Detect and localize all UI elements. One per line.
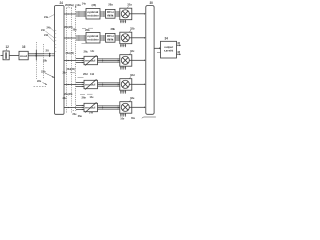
svg-text:modul: modul — [85, 107, 96, 110]
dashed guide left 2 — [36, 61, 38, 80]
wires into modulator b — [76, 36, 86, 40]
svg-text:24d: 24d — [44, 33, 49, 37]
wire splitter to row b — [64, 37, 76, 39]
wires into modulator c — [76, 59, 84, 63]
wire mixer e to combiner — [132, 106, 145, 108]
dashed guide left — [42, 44, 44, 79]
svg-text:34: 34 — [165, 37, 169, 41]
stub lower — [157, 52, 161, 54]
wire mixer a to combiner — [132, 13, 145, 15]
wire mixer d to combiner — [132, 83, 145, 85]
dashed top edge — [66, 7, 72, 9]
mixer circle d — [121, 80, 129, 88]
svg-text:12: 12 — [6, 45, 10, 49]
svg-text:38: 38 — [177, 50, 180, 54]
LO stubs d — [121, 90, 125, 93]
wires mod to filter b — [100, 36, 106, 40]
svg-text:14e: 14e — [89, 111, 94, 115]
slashed modulator box e — [84, 103, 98, 111]
svg-text:20: 20 — [46, 49, 50, 53]
svg-text:24c: 24c — [41, 28, 46, 32]
svg-text:modul: modul — [85, 84, 96, 87]
mixer circle a — [121, 10, 129, 18]
arrowhead top of line — [75, 5, 77, 7]
svg-text:24a: 24a — [44, 15, 49, 19]
mixer circle c — [121, 56, 129, 64]
svg-text:28d: 28d — [63, 72, 68, 75]
svg-text:32a: 32a — [127, 3, 132, 7]
wire splitter to row c — [64, 60, 76, 62]
slashed modulator box c — [84, 56, 98, 64]
svg-text:20e: 20e — [72, 112, 77, 116]
long wires to mixer c — [98, 59, 120, 62]
mixer box b — [120, 32, 132, 44]
wire splitter to row d — [64, 84, 76, 86]
dashed box 2 right edge — [75, 5, 77, 111]
slashed modulator box d — [84, 80, 98, 88]
svg-text:(26): (26) — [92, 3, 97, 7]
dashed box 2 left edge — [66, 8, 68, 113]
LO stubs e — [121, 113, 125, 116]
splitter internal ticks — [55, 30, 57, 51]
svg-text:28b: 28b — [111, 27, 116, 31]
svg-text:26d: 26d — [83, 72, 88, 76]
mixer box e — [120, 102, 132, 114]
wires into modulator e — [76, 106, 84, 110]
svg-text:26(26a): 26(26a) — [65, 3, 74, 7]
mixer circle e — [121, 103, 129, 111]
svg-text:filt: filt — [107, 39, 114, 42]
LO stubs b — [121, 44, 125, 47]
svg-text:mod: mod — [20, 55, 28, 58]
leader for 12 — [5, 49, 8, 51]
svg-text:18b: 18b — [43, 59, 48, 63]
svg-text:28b: 28b — [73, 29, 78, 32]
wires filter to mixer b — [115, 36, 120, 40]
svg-text:26e: 26e — [82, 95, 87, 99]
combiner bottom hook — [142, 117, 156, 118]
svg-text:16: 16 — [22, 45, 26, 49]
mixer box d — [120, 79, 132, 91]
modulator box b — [86, 33, 100, 44]
wire arrows into splitter — [44, 54, 49, 56]
input wire from edge — [1, 55, 4, 57]
wires mod to filter a — [100, 12, 106, 16]
svg-text:22e: 22e — [37, 79, 42, 83]
symbol inside L1 — [5, 52, 7, 58]
dashed box 2 mid edge — [71, 8, 73, 113]
wire splitter to row a — [64, 13, 76, 15]
filter box b — [106, 33, 116, 42]
svg-text:16e: 16e — [120, 118, 125, 120]
long wires to mixer e — [98, 106, 120, 109]
svg-text:24: 24 — [60, 1, 64, 5]
svg-text:14d: 14d — [90, 73, 95, 76]
svg-text:12a: 12a — [76, 3, 81, 7]
combiner box — [146, 6, 154, 115]
wire mixer c to combiner — [132, 59, 145, 61]
splitter box — [55, 6, 64, 115]
junction bar — [35, 50, 37, 60]
svg-text:26c: 26c — [84, 50, 89, 54]
svg-text:14e: 14e — [90, 96, 95, 99]
dashed horizontal bottom left — [34, 86, 47, 88]
wire L1 to L2 — [9, 55, 19, 57]
box source L1 — [3, 51, 9, 60]
svg-text:30: 30 — [150, 1, 154, 5]
svg-text:36: 36 — [177, 41, 180, 45]
svg-text:unit: unit — [164, 50, 174, 53]
svg-text:30e: 30e — [131, 117, 136, 120]
modulator box a — [86, 9, 100, 20]
svg-text:28a: 28a — [108, 2, 113, 6]
mixer circle b — [121, 34, 129, 42]
wire double L2 to splitter — [28, 53, 44, 55]
long wires to mixer d — [98, 83, 120, 86]
svg-text:filt: filt — [107, 15, 114, 18]
dashed guide left 2 upper — [36, 42, 38, 50]
filter box a — [106, 9, 116, 18]
svg-text:modulator: modulator — [87, 38, 99, 41]
svg-text:modul: modul — [85, 60, 96, 63]
LO stubs c — [121, 66, 125, 69]
wires into modulator d — [76, 83, 84, 87]
svg-text:14c: 14c — [90, 50, 95, 53]
wire mixer b to combiner — [132, 37, 145, 39]
LO stubs a — [121, 20, 125, 23]
dashed bottom dashes — [73, 110, 77, 112]
box L2 — [19, 51, 28, 60]
svg-text:14a: 14a — [82, 3, 87, 6]
svg-text:26e(26): 26e(26) — [64, 92, 72, 96]
svg-text:24b: 24b — [47, 26, 52, 30]
svg-text:modulator: modulator — [87, 14, 99, 17]
svg-text:26c(26): 26c(26) — [66, 51, 74, 55]
wires filter to mixer a — [115, 12, 120, 16]
svg-text:26e: 26e — [78, 114, 83, 118]
wires into modulator a — [76, 12, 86, 16]
wire splitter to row e — [64, 107, 76, 109]
output unit box — [161, 41, 177, 58]
mixer box c — [120, 55, 132, 66]
svg-text:output: output — [164, 46, 173, 49]
wire combiner to output box — [154, 47, 160, 49]
svg-text:26b(26): 26b(26) — [64, 25, 73, 29]
mixer box a — [120, 8, 132, 20]
svg-text:26d(26): 26d(26) — [66, 67, 75, 71]
